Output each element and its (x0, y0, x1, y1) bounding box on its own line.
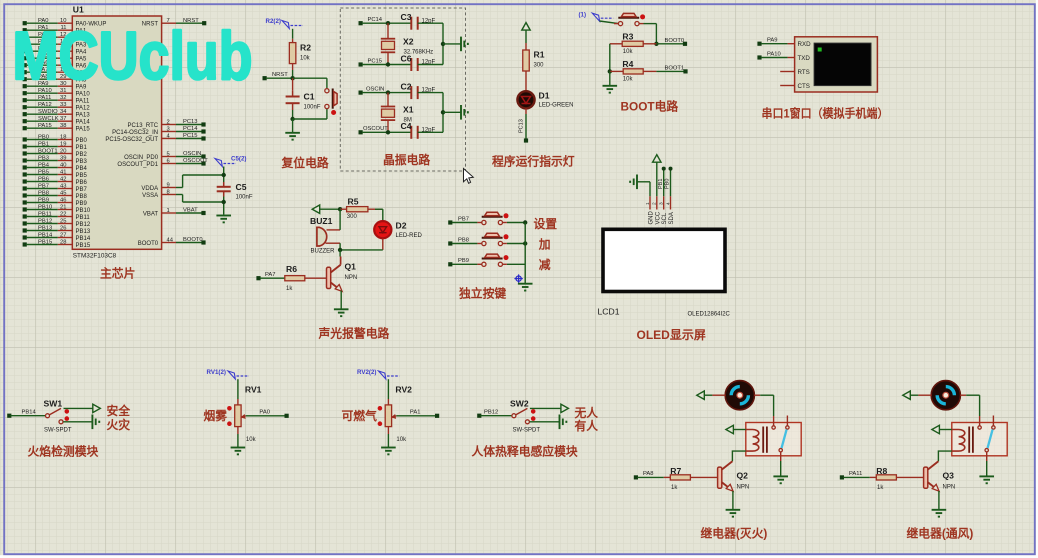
svg-text:声光报警电路: 声光报警电路 (318, 326, 390, 340)
svg-text:加: 加 (538, 237, 551, 251)
svg-text:Q2: Q2 (737, 471, 749, 481)
node PB9 (448, 262, 452, 266)
svg-text:1k: 1k (877, 485, 884, 491)
svg-text:3: 3 (167, 126, 170, 132)
svg-text:PA15: PA15 (38, 123, 52, 129)
node NRST (263, 76, 267, 80)
svg-text:PC13_RTC: PC13_RTC (128, 123, 159, 129)
svg-text:PB5: PB5 (76, 173, 88, 179)
svg-text:28: 28 (60, 240, 66, 246)
svg-text:1k: 1k (671, 485, 678, 491)
ground under relay 灭火 (780, 461, 782, 476)
pin NRST (#7) (162, 22, 176, 24)
wire C3 right (418, 22, 443, 24)
svg-text:C2: C2 (401, 81, 412, 91)
svg-text:SDA: SDA (669, 212, 675, 224)
svg-text:减: 减 (539, 258, 551, 272)
svg-text:火灾: 火灾 (107, 418, 131, 432)
svg-text:烟雾: 烟雾 (204, 409, 228, 423)
svg-text:PB6: PB6 (76, 180, 88, 186)
node PB12 (477, 414, 481, 418)
pin PA10 (#31) with wire and node PA10 (23, 91, 27, 95)
svg-text:有人: 有人 (575, 419, 599, 433)
svg-text:2: 2 (167, 119, 170, 125)
key bus wire (524, 223, 526, 284)
svg-text:LED-GREEN: LED-GREEN (539, 103, 574, 109)
svg-text:PB14: PB14 (76, 236, 91, 242)
relay lever 灭火 (782, 429, 787, 448)
power arrow coil 通风 (932, 425, 940, 433)
wire PB9 to bus (507, 263, 525, 265)
pin PB12 (#25) with wire and node PB12 (23, 221, 27, 225)
wire C1 bottom (292, 110, 294, 119)
capacitor C6 (410, 58, 412, 71)
crystal X1 (387, 93, 389, 107)
svg-text:PB13: PB13 (76, 229, 91, 235)
wire RV2 wiper to PA1 (396, 415, 437, 417)
svg-text:RTS: RTS (798, 69, 810, 76)
ground under keys (518, 283, 533, 285)
node PC15 (359, 62, 363, 66)
pin PB1 (#19) with wire and node PB1 (23, 144, 27, 148)
svg-text:GND: GND (649, 211, 655, 225)
svg-text:26: 26 (60, 226, 66, 232)
svg-text:PA13: PA13 (76, 113, 91, 119)
svg-text:300: 300 (534, 63, 545, 69)
svg-text:SW-SPDT: SW-SPDT (513, 428, 541, 434)
svg-text:19: 19 (60, 142, 66, 148)
relay box 灭火 (746, 423, 801, 456)
svg-text:22: 22 (60, 212, 66, 218)
power arrow coil 灭火 (726, 425, 734, 433)
key button PB7 (477, 222, 481, 224)
node PA9 (757, 42, 761, 46)
svg-text:9: 9 (167, 182, 170, 188)
svg-text:100nF: 100nF (304, 105, 321, 111)
relay bottom contact 灭火 (779, 449, 782, 452)
svg-text:PC14-OSC32_IN: PC14-OSC32_IN (112, 130, 158, 136)
svg-text:18: 18 (60, 135, 66, 141)
power arrow motor 通风 (903, 391, 911, 399)
node PC14 (359, 21, 363, 25)
pin PB7 (#43) with wire and node PB7 (23, 186, 27, 190)
wire RV2 bottom (387, 427, 389, 434)
svg-text:C5: C5 (236, 182, 247, 192)
svg-text:42: 42 (60, 177, 66, 183)
svg-text:C6: C6 (401, 53, 412, 63)
svg-text:RXD: RXD (798, 41, 812, 48)
svg-text:10k: 10k (300, 56, 311, 62)
pin PA6 (#16) with wire and node PA6 (23, 63, 27, 67)
svg-text:PB11: PB11 (76, 215, 91, 221)
svg-text:RV2(2): RV2(2) (357, 369, 377, 376)
motor for 灭火 (725, 381, 754, 410)
pin PA11 (#32) with wire and node PA11 (23, 98, 27, 102)
node OSCIN (359, 91, 363, 95)
node OSCOUT (359, 130, 363, 134)
terminal pin CTS stub (780, 85, 794, 87)
origin marker (516, 276, 521, 281)
pin VSSA (#8) (162, 194, 176, 196)
svg-text:VDDA: VDDA (141, 186, 158, 192)
motor lead left 通风 (918, 394, 931, 396)
svg-text:OSCIN: OSCIN (183, 151, 201, 157)
pin PB10 (#21) with wire and node PB10 (23, 207, 27, 211)
svg-text:46: 46 (60, 198, 66, 204)
svg-text:40: 40 (60, 163, 66, 169)
svg-text:STM32F103C8: STM32F103C8 (73, 253, 117, 260)
relay contact pin 2 通风 (992, 416, 994, 426)
virtual terminal P1 body (795, 37, 878, 92)
svg-text:NPN: NPN (345, 275, 358, 281)
display LCD1 OLED body (603, 229, 725, 291)
wire R5 to D2 (375, 208, 383, 210)
wire C4 right (418, 131, 443, 133)
wire SDA PB0 (670, 170, 672, 197)
svg-text:PB8: PB8 (76, 194, 88, 200)
wire RV1 wiper to PA0 (246, 415, 287, 417)
wire buzzer net (339, 209, 341, 230)
relay coil 灭火 (746, 430, 759, 452)
svg-text:PB9: PB9 (458, 258, 469, 264)
chip U1 body (72, 16, 161, 249)
resistor R3 (622, 41, 643, 46)
svg-text:LCD1: LCD1 (598, 307, 620, 317)
wire D2 bottom (382, 238, 384, 250)
relay contact pin 2 灭火 (786, 416, 788, 426)
svg-text:PB8: PB8 (38, 190, 49, 196)
svg-text:RV1: RV1 (245, 385, 262, 395)
ground right of X2 (443, 43, 461, 45)
pin PA14 (#37) with wire and node SWCLK (23, 119, 27, 123)
svg-text:Q3: Q3 (943, 471, 955, 481)
svg-text:PB12: PB12 (76, 222, 91, 228)
svg-text:34: 34 (60, 109, 67, 115)
svg-text:OLED显示屏: OLED显示屏 (637, 328, 706, 342)
svg-text:继电器(通风): 继电器(通风) (907, 526, 974, 540)
svg-text:45: 45 (60, 191, 66, 197)
svg-text:10k: 10k (623, 76, 634, 82)
power arrow R5 (312, 205, 320, 213)
wire RV2 top (387, 379, 389, 399)
svg-text:PB0: PB0 (38, 134, 49, 140)
svg-text:D2: D2 (396, 221, 407, 231)
relay coil 通风 (952, 430, 965, 452)
svg-text:主芯片: 主芯片 (100, 267, 135, 281)
svg-text:PB10: PB10 (38, 204, 52, 210)
pin PB2 (#20) with wire and node BOOT1 (23, 151, 27, 155)
wire VDDA jog (176, 187, 183, 189)
svg-text:R5: R5 (348, 197, 359, 207)
svg-text:BOOT0: BOOT0 (665, 38, 685, 44)
svg-text:PB9: PB9 (38, 197, 49, 203)
svg-text:X1: X1 (403, 104, 414, 114)
svg-text:PA12: PA12 (76, 106, 91, 112)
pin PB15 (#28) with wire and node PB15 (23, 242, 27, 246)
svg-text:OSCOUT: OSCOUT (363, 126, 388, 132)
pin PC14-OSC32_IN (#3) (162, 131, 176, 133)
svg-text:BOOT1: BOOT1 (38, 148, 58, 154)
svg-text:PA9: PA9 (767, 38, 778, 44)
pin PA7 (#17) with wire and node PA7 (23, 70, 27, 74)
svg-text:SWCLK: SWCLK (38, 116, 59, 122)
pin PA5 (#15) with wire and node PA5 (23, 56, 27, 60)
power arrow VCC OLED (653, 155, 661, 163)
pin PB8 (#45) with wire and node PB8 (23, 193, 27, 197)
resistor R4 (610, 70, 623, 72)
pin VBAT (#1) (162, 212, 176, 214)
mouse cursor (464, 169, 474, 184)
svg-text:VBAT: VBAT (183, 208, 198, 214)
wire R1 to D1 (525, 79, 527, 92)
svg-text:PB10: PB10 (76, 208, 91, 214)
svg-text:BOOT1: BOOT1 (665, 66, 685, 72)
relay box 通风 (952, 423, 1007, 456)
svg-text:LED-RED: LED-RED (396, 233, 423, 239)
pin PB14 (#27) with wire and node PB14 (23, 235, 27, 239)
node PB14 (7, 414, 11, 418)
svg-text:OLED12864I2C: OLED12864I2C (688, 312, 731, 318)
pin PA4 (#14) with wire and node PA4 (23, 49, 27, 53)
svg-text:PB0: PB0 (76, 138, 88, 144)
ground right of SW1 (91, 415, 93, 430)
capacitor C3 (410, 17, 412, 30)
relay lever 通风 (988, 429, 993, 448)
ground under Q2 (726, 509, 741, 511)
ground under Q1 (334, 308, 349, 310)
relay contact pin 1 灭火 (773, 416, 775, 426)
key button PB8 (477, 243, 481, 245)
ground under C1 (292, 119, 294, 133)
wire Q3 emitter (938, 491, 940, 510)
svg-text:6: 6 (167, 158, 170, 164)
node R5 left (338, 207, 342, 211)
svg-text:SCL: SCL (662, 212, 668, 224)
terminal screen (814, 43, 871, 86)
pin PA0-WKUP (#10) with wire and node PA0 (23, 21, 27, 25)
svg-text:晶振电路: 晶振电路 (383, 153, 430, 167)
svg-text:33: 33 (60, 102, 66, 108)
svg-text:BUZZER: BUZZER (311, 249, 336, 255)
wire C5 bottom (223, 197, 225, 215)
svg-text:人体热释电感应模块: 人体热释电感应模块 (472, 444, 578, 458)
resistor R8 (870, 476, 877, 478)
ground under relay 通风 (986, 461, 988, 476)
svg-text:火焰检测模块: 火焰检测模块 (28, 444, 99, 458)
svg-text:OSCOUT_PD1: OSCOUT_PD1 (117, 162, 158, 168)
resistor R5 (340, 208, 347, 210)
svg-text:BOOT0: BOOT0 (183, 237, 203, 243)
svg-text:BUZ1: BUZ1 (310, 216, 333, 226)
svg-text:1k: 1k (286, 286, 293, 292)
svg-text:串口1窗口（模拟手机端）: 串口1窗口（模拟手机端） (762, 107, 889, 121)
reset button (325, 89, 329, 93)
ground under R4 net (609, 71, 611, 85)
svg-text:PB7: PB7 (38, 183, 49, 189)
node BOOT1 (656, 70, 685, 72)
wire R2 bottom to NRST node (292, 64, 294, 70)
probe RV2(2) (379, 371, 386, 379)
ground left of OLED (649, 182, 651, 197)
ground right of X1 (443, 111, 461, 113)
pin PB9 (#46) with wire and node PB9 (23, 200, 27, 204)
svg-text:程序运行指示灯: 程序运行指示灯 (492, 154, 575, 168)
svg-text:1: 1 (645, 202, 651, 205)
pin PC13_RTC (#2) (162, 124, 176, 126)
svg-text:D1: D1 (539, 91, 550, 101)
pin PB13 (#26) with wire and node PB13 (23, 228, 27, 232)
power arrow SW1 (93, 404, 101, 412)
wire RV1 top (237, 379, 239, 399)
probe RV1(2) (228, 371, 235, 379)
probe C5(2) (215, 159, 222, 167)
svg-text:3: 3 (659, 202, 665, 205)
svg-text:无人: 无人 (574, 406, 599, 420)
node PB7 (448, 220, 452, 224)
svg-text:SWDIO: SWDIO (38, 109, 58, 115)
pin PA2 (#12) with wire and node PA2 (23, 35, 27, 39)
svg-text:C1: C1 (304, 92, 315, 102)
wire coil to collector 灭火 (732, 451, 745, 461)
svg-text:BOOT电路: BOOT电路 (621, 100, 679, 114)
resistor R2 (289, 43, 296, 64)
svg-text:PA10: PA10 (767, 51, 781, 57)
svg-text:PC14: PC14 (183, 126, 198, 132)
wire SW2 down throw (530, 421, 560, 423)
ground under RV2 (381, 447, 396, 449)
svg-text:5: 5 (167, 151, 170, 157)
wire SCL PB1 (663, 170, 665, 197)
svg-text:PA11: PA11 (76, 99, 90, 105)
probe (1) (592, 13, 599, 21)
svg-text:2: 2 (652, 202, 658, 205)
svg-text:PB7: PB7 (458, 216, 469, 222)
transistor Q3 (927, 461, 938, 470)
wire VSSA jog (176, 194, 183, 196)
wire Q1 emitter to ground (340, 291, 342, 310)
svg-text:RV1(2): RV1(2) (207, 369, 227, 376)
svg-text:PB6: PB6 (38, 176, 49, 182)
svg-text:R6: R6 (286, 264, 297, 274)
pin PA9 (#30) with wire and node PA9 (23, 84, 27, 88)
dashed box crystal section (340, 8, 465, 171)
svg-text:PA14: PA14 (76, 120, 91, 126)
svg-text:Q1: Q1 (345, 261, 357, 271)
svg-text:R4: R4 (622, 59, 633, 69)
pin PA1 (#11) with wire and node PA1 (23, 28, 27, 32)
svg-text:R8: R8 (876, 466, 887, 476)
svg-text:PB1: PB1 (38, 141, 49, 147)
svg-text:27: 27 (60, 233, 66, 239)
svg-text:PB0: PB0 (665, 179, 671, 189)
resistor R6 (285, 276, 305, 281)
transistor Q2 (721, 461, 732, 470)
svg-text:PB8: PB8 (458, 237, 469, 243)
wire R2 top (292, 29, 294, 39)
svg-text:PB4: PB4 (76, 166, 88, 172)
LED D1 LED-GREEN (517, 91, 534, 108)
ground right of SW2 (559, 415, 561, 430)
motor lead right 通风 (960, 394, 966, 396)
wire SW2 up throw (530, 407, 561, 409)
svg-text:PC15: PC15 (183, 133, 198, 139)
svg-text:R3: R3 (622, 31, 633, 41)
svg-text:PC15: PC15 (368, 58, 383, 64)
svg-text:独立按键: 独立按键 (458, 286, 506, 300)
pin OSCIN_PD0 (#5) (162, 156, 176, 158)
svg-text:PB5: PB5 (38, 169, 49, 175)
svg-text:R7: R7 (670, 466, 681, 476)
svg-text:10k: 10k (396, 437, 407, 443)
svg-text:VCC: VCC (655, 211, 661, 224)
svg-text:NPN: NPN (737, 485, 750, 491)
svg-text:1: 1 (167, 208, 170, 214)
svg-text:VSSA: VSSA (142, 193, 158, 199)
svg-text:8: 8 (167, 189, 170, 195)
key bus junctions (523, 220, 527, 224)
transistor Q1 (339, 250, 341, 257)
svg-text:32: 32 (60, 95, 66, 101)
svg-text:PC13: PC13 (183, 119, 198, 125)
motor lead left 灭火 (712, 394, 725, 396)
OLED pin stubs 1-4 (649, 196, 651, 209)
wire C5 top (223, 167, 225, 183)
svg-text:43: 43 (60, 184, 66, 190)
wire NRST to button (293, 77, 327, 79)
relay contact pin 1 通风 (979, 416, 981, 426)
pin PA3 (#13) with wire and node PA3 (23, 42, 27, 46)
pin PB5 (#41) with wire and node PB5 (23, 172, 27, 176)
wire D1 to PC13 (525, 108, 527, 114)
ground under RV1 (231, 447, 246, 449)
motor lead right 灭火 (754, 394, 760, 396)
svg-text:PC14: PC14 (368, 17, 383, 23)
svg-text:RV2: RV2 (395, 385, 412, 395)
svg-text:4: 4 (665, 202, 671, 205)
capacitor C4 (410, 126, 412, 139)
svg-text:R2: R2 (300, 43, 311, 53)
LED D2 LED-RED (374, 221, 391, 238)
svg-text:10k: 10k (623, 49, 634, 55)
pin PA15 (#38) with wire and node PA15 (23, 126, 27, 130)
wire SW1 up throw (64, 407, 93, 409)
svg-text:C5(2): C5(2) (231, 156, 246, 163)
svg-text:BOOT0: BOOT0 (138, 241, 159, 247)
svg-text:PB14: PB14 (38, 232, 53, 238)
svg-text:PB12: PB12 (38, 218, 52, 224)
terminal pin RTS stub (780, 71, 794, 73)
svg-text:SW-SPDT: SW-SPDT (44, 428, 72, 434)
pin BOOT0 (#44) (162, 242, 176, 244)
svg-text:PC15-OSC32_OUT: PC15-OSC32_OUT (105, 137, 158, 143)
svg-text:NPN: NPN (943, 485, 956, 491)
power arrow motor 灭火 (697, 391, 705, 399)
crystal X2 (387, 23, 389, 39)
pin PA12 (#33) with wire and node PA12 (23, 105, 27, 109)
node PA7 (256, 276, 260, 280)
svg-text:继电器(灭火): 继电器(灭火) (701, 526, 768, 540)
svg-text:PA11: PA11 (849, 471, 862, 477)
svg-text:100nF: 100nF (236, 195, 253, 201)
wire PB8 to bus (507, 243, 525, 245)
svg-text:PA11: PA11 (38, 95, 51, 101)
ground under Q3 (932, 509, 947, 511)
pin PB11 (#22) with wire and node PB11 (23, 214, 27, 218)
wire C6 right (418, 64, 443, 66)
svg-text:25: 25 (60, 219, 66, 225)
svg-text:PB9: PB9 (76, 201, 88, 207)
svg-text:OSCOUT: OSCOUT (183, 158, 208, 164)
